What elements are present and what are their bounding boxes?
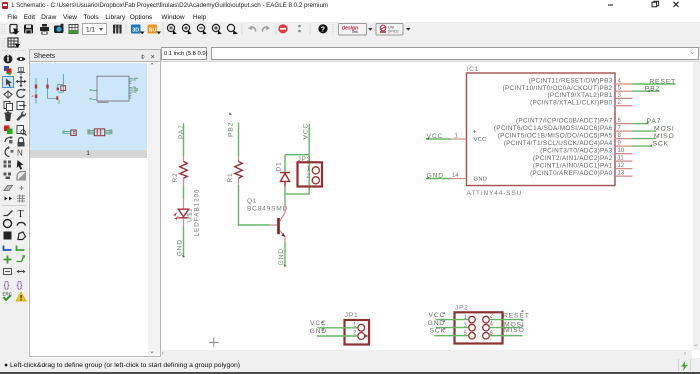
pin 9 PA4: [615, 145, 633, 147]
save icon: [24, 25, 33, 34]
svg-text:BC849SMD: BC849SMD: [247, 206, 288, 213]
svg-text:R2: R2: [172, 172, 179, 182]
GND supply wire pin14: [426, 178, 451, 180]
r13: technology: [17, 195, 25, 203]
wire top horizontal to D1: [285, 154, 309, 156]
svg-text:GND: GND: [278, 248, 285, 266]
svg-text:(PCINT7/ICP/OC0B/ADC7)PA7: (PCINT7/ICP/OC0B/ADC7)PA7: [516, 117, 613, 124]
r19: dimension: [17, 271, 25, 273]
svg-text:12: 12: [618, 163, 625, 169]
sheets panel: [29, 49, 161, 357]
svg-text:GND: GND: [474, 177, 488, 183]
IC mini box: [97, 76, 129, 101]
wire LED to GND: [183, 227, 185, 257]
separator: [126, 24, 127, 35]
3D blue button: [131, 25, 141, 34]
sheets vertical scrollbar: [148, 63, 160, 354]
IC mini left pins: [93, 91, 98, 100]
svg-text:R1: R1: [227, 172, 234, 182]
scale dropdown 1/1: [83, 24, 107, 35]
r5: paste group: [17, 102, 24, 110]
left command toolbar icons: [0, 49, 28, 309]
toolbar row 2: [0, 36, 700, 49]
wire mini q1 gnd: [58, 100, 60, 104]
pin 6 PA7: [615, 123, 633, 125]
IC mini right pins: [129, 78, 133, 98]
canvas area: [161, 62, 693, 350]
IC mini right net smudges: [134, 78, 138, 79]
grid settings icon: [69, 25, 78, 34]
open icon: [10, 25, 17, 34]
toolbar2 grid icon: [7, 37, 23, 49]
diode mini D1: [57, 88, 59, 91]
canvas h scrollbar: [161, 350, 692, 358]
help icon: [318, 24, 327, 33]
r8: lock: [19, 138, 24, 143]
title bar: [0, 0, 700, 11]
LED U$1: [178, 209, 188, 218]
r4: mirror: [4, 91, 12, 98]
wire VCC to JP2 pin1: [436, 319, 469, 321]
wire GND to JP1 pin2: [317, 335, 358, 337]
LED arrows: [173, 212, 177, 217]
wire MOSI: [633, 130, 657, 132]
r11: miter corner: [17, 172, 26, 181]
svg-text:SCK: SCK: [653, 140, 669, 147]
r8: gateswap: [5, 138, 11, 142]
r10: smash cursor: [17, 160, 24, 170]
r6: wrench: [16, 111, 26, 121]
separator: [276, 24, 277, 35]
layers icon: [113, 25, 122, 34]
connector JP3: [298, 162, 323, 186]
r19: attribute: [4, 269, 12, 275]
r2: mark origin: [17, 68, 25, 75]
wire mini vcc jp3: [58, 74, 64, 92]
svg-text:VCC: VCC: [429, 312, 446, 319]
svg-text:GND: GND: [428, 320, 446, 327]
junction arrow at JP2 pin3: [471, 326, 475, 330]
r16: rect tool: [4, 232, 12, 240]
svg-text:MISO: MISO: [504, 327, 525, 334]
toolbar2 handle: [0, 37, 8, 49]
coordinate box: [161, 47, 207, 60]
r12: split: [4, 186, 13, 191]
EAGLE app icon: [2, 2, 8, 9]
r17: net tool: [17, 246, 25, 251]
r1: display eye: [17, 57, 26, 61]
svg-text:Q1: Q1: [247, 198, 257, 205]
connector JP1: [345, 320, 370, 345]
left toolbar background: [0, 49, 28, 372]
r18: label: [17, 257, 24, 262]
junction arrow at JP1 pin2: [365, 334, 369, 338]
status bar: [0, 358, 700, 372]
r15: arc tool: [17, 222, 26, 225]
r17: bus tool: [4, 246, 12, 251]
pin 13 PA0: [615, 175, 633, 177]
svg-text:(PCINT6/OC1A/SDA/MOSI/ADC6)PA6: (PCINT6/OC1A/SDA/MOSI/ADC6)PA6: [494, 125, 613, 132]
resistor R2: [180, 161, 187, 178]
svg-text:VCC: VCC: [303, 123, 310, 140]
wire D1 cathode to junction: [284, 187, 286, 195]
separator: [310, 24, 311, 35]
r12: optimize: [20, 186, 24, 190]
svg-text:11: 11: [618, 156, 625, 162]
wire mini led branch: [35, 78, 37, 104]
svg-text:(PCINT3/T0/ADC3)PA3: (PCINT3/T0/ADC3)PA3: [540, 147, 612, 154]
wire VCC vertical through JP3: [308, 124, 310, 194]
pin 3 PB1: [615, 97, 633, 99]
svg-text:IC1: IC1: [467, 66, 480, 73]
wire VCC to JP1 pin1: [318, 327, 359, 329]
mouse crosshair: [209, 337, 219, 347]
svg-text:VCC: VCC: [310, 320, 327, 327]
resistor mini R2: [35, 85, 37, 89]
VCC supply wire pin1: [426, 138, 451, 140]
connector JP2: [455, 312, 503, 343]
r9: arc left: [5, 148, 10, 157]
svg-text:(PCINT4/T1/SCL/USCK/ADC4)PA4: (PCINT4/T1/SCL/USCK/ADC4)PA4: [504, 140, 613, 147]
connector mini JP3: [61, 86, 66, 91]
wire GND to JP2 pin3: [436, 327, 469, 329]
resistor mini R1: [46, 85, 48, 89]
zoom out: [197, 24, 206, 34]
wire SCK to JP2 pin5: [435, 335, 469, 337]
wire D1 anode drop: [284, 155, 286, 172]
wire collector up: [284, 206, 286, 213]
r15: circle tool: [4, 220, 12, 228]
canvas top border: [161, 61, 700, 62]
r18: junction: [4, 256, 12, 264]
svg-text:VCC: VCC: [474, 137, 487, 143]
svg-text:(PCINT2/AIN1/ADC2)PA2: (PCINT2/AIN1/ADC2)PA2: [533, 155, 613, 162]
r7: search/replace: [17, 126, 24, 134]
pin 11 PA2: [615, 160, 633, 162]
separator: [2, 205, 26, 207]
pin 7 PA6: [615, 130, 633, 132]
svg-text:U$1: U$1: [187, 208, 194, 222]
r11: pattern: [4, 173, 7, 176]
svg-text:4: 4: [490, 322, 494, 328]
r13: invoke: [5, 197, 13, 201]
r14: wire tool: [4, 211, 13, 216]
r21: errors warning: [16, 292, 26, 301]
IC IC1 ATTINY44-SSU: [467, 73, 616, 186]
separator: [242, 24, 243, 35]
svg-text:(PCINT1/AIN0/ADC1)PA1: (PCINT1/AIN0/ADC1)PA1: [533, 162, 613, 169]
svg-text:(PCINT5/OC1B/MISO/DO/ADC5)PA5: (PCINT5/OC1B/MISO/DO/ADC5)PA5: [498, 132, 613, 139]
wire MISO: [633, 138, 657, 140]
pin 10 PA3: [615, 153, 633, 155]
r2: layer settings: [4, 66, 9, 71]
wire SCK: [633, 145, 651, 147]
wire MOSI from JP2 pin4: [489, 327, 522, 329]
wire RESET: [633, 83, 676, 85]
svg-text:(PCINT9/XTAL2)PB1: (PCINT9/XTAL2)PB1: [548, 92, 613, 99]
svg-text:MOSI: MOSI: [654, 125, 675, 132]
r1: info: [4, 55, 13, 64]
svg-text:(PCINT11/RESET/DW)PB3: (PCINT11/RESET/DW)PB3: [529, 78, 613, 85]
svg-text:13: 13: [618, 171, 625, 177]
handle: [332, 24, 334, 34]
pin 8 PA5: [615, 138, 633, 140]
svg-text:PA7: PA7: [647, 118, 662, 125]
transistor mini Q1: [56, 96, 58, 100]
svg-text:GND: GND: [427, 172, 445, 179]
wire PB2 net vertical: [238, 123, 240, 157]
r10: value dots: [4, 161, 7, 164]
zoom fit: [167, 24, 176, 34]
svg-text:LEDFAB1206: LEDFAB1206: [194, 189, 201, 237]
canvas v scrollbar: [693, 62, 700, 350]
DRC lightning bolt: [680, 361, 689, 371]
pin 12 PA1: [615, 168, 633, 170]
wire bottom horizontal junction: [285, 193, 309, 195]
drag handle: [2, 24, 5, 34]
r4: rotate: [17, 90, 25, 98]
print icon: [42, 24, 47, 27]
svg-text:(PCINT10/INT0/OC0A/CKOUT)PB2: (PCINT10/INT0/OC0A/CKOUT)PB2: [503, 85, 613, 92]
svg-text:RESET: RESET: [649, 78, 676, 85]
redo: [262, 27, 268, 31]
resistor R1 pin stubs: [238, 157, 240, 185]
LED U$1 pin stubs: [183, 199, 185, 227]
pin 4 PB3: [615, 83, 633, 85]
window buttons: [600, 0, 690, 11]
r3: move: [17, 77, 26, 86]
svg-text:MISO: MISO: [654, 133, 675, 140]
svg-text:10: 10: [618, 148, 625, 154]
transistor Q1 base stub: [270, 224, 278, 226]
stop icon: [278, 24, 287, 33]
pin 5 PB2: [615, 90, 633, 92]
wire PA7 right: [633, 123, 649, 125]
svg-text:RESET: RESET: [503, 312, 530, 319]
pin 2 PB0: [615, 105, 633, 107]
menu bar: [0, 11, 700, 22]
dots menu: [298, 25, 301, 28]
wire R1 to base: [239, 185, 270, 225]
wire MISO from JP2 pin6: [489, 335, 522, 337]
sheet "1" row: [30, 150, 147, 158]
svg-text:D1: D1: [276, 161, 283, 171]
UNI SPICE button: [376, 24, 403, 36]
zoom in: [182, 24, 191, 34]
r6: delete trash: [4, 103, 6, 105]
r16: polygon tool: [18, 232, 26, 240]
svg-text:PB2: PB2: [228, 122, 235, 137]
svg-text:2: 2: [490, 314, 494, 320]
connector mini JP2: [94, 129, 104, 136]
r3: group select (active): [3, 77, 14, 88]
resistor R2 pin stubs: [183, 157, 185, 185]
design link button: [339, 24, 367, 36]
svg-text:+: +: [473, 130, 477, 136]
resistor R1: [235, 161, 242, 178]
svg-text:JP2: JP2: [455, 305, 469, 312]
wire PB2: [633, 90, 660, 92]
svg-text:PB2: PB2: [645, 86, 660, 93]
svg-text:GND: GND: [177, 239, 184, 257]
zoom select: [212, 24, 221, 34]
svg-text:(PCINT0/AREF/ADC0)PA0: (PCINT0/AREF/ADC0)PA0: [530, 170, 613, 177]
IC mini name smudge: [98, 102, 109, 103]
diode D1: [280, 173, 290, 187]
wire RESET from JP2 pin2: [489, 319, 522, 321]
image/camera icon: [54, 26, 64, 34]
zoom redraw: [227, 24, 238, 34]
svg-text:VCC: VCC: [427, 133, 444, 140]
wire R2 to LED: [183, 185, 185, 199]
command combobox: [211, 47, 699, 60]
r7: change: [4, 126, 10, 132]
bottom dark strip: [0, 372, 700, 374]
svg-text:(PCINT8/XTAL1/CLKI)PB0: (PCINT8/XTAL1/CLKI)PB0: [530, 99, 613, 106]
r5: copy: [4, 102, 10, 109]
node PB2 (net label): [229, 113, 232, 115]
title text: [11, 2, 511, 11]
LED mini: [35, 95, 37, 98]
dock row background: [0, 49, 700, 62]
orange button: [148, 25, 158, 34]
transistor Q1: [277, 213, 285, 237]
undo: [250, 27, 256, 31]
separator: [163, 24, 164, 35]
svg-text:JP3: JP3: [298, 156, 312, 163]
svg-text:JP1: JP1: [345, 312, 359, 319]
connector mini JP1: [71, 130, 76, 135]
svg-text:14: 14: [452, 173, 459, 179]
svg-text:GND: GND: [310, 328, 328, 335]
wire PA7 net vertical: [183, 123, 185, 156]
svg-text:ATTINY44-SSU: ATTINY44-SSU: [467, 190, 523, 197]
sheets blue thumbnail: [30, 63, 147, 150]
wire emitter down: [284, 237, 286, 242]
toolbar row 1: [0, 22, 700, 37]
wire mini transistor branch: [48, 78, 57, 98]
